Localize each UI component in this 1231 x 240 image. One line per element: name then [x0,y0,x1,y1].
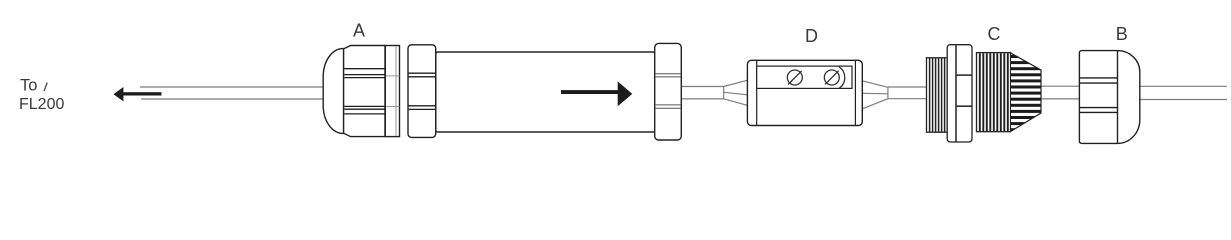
svg-text:B: B [1116,24,1128,44]
svg-text:To: To [20,77,37,95]
svg-text:D: D [805,26,818,46]
svg-text:A: A [353,21,365,41]
svg-text:FL200: FL200 [19,96,64,113]
svg-text:C: C [988,24,1001,44]
